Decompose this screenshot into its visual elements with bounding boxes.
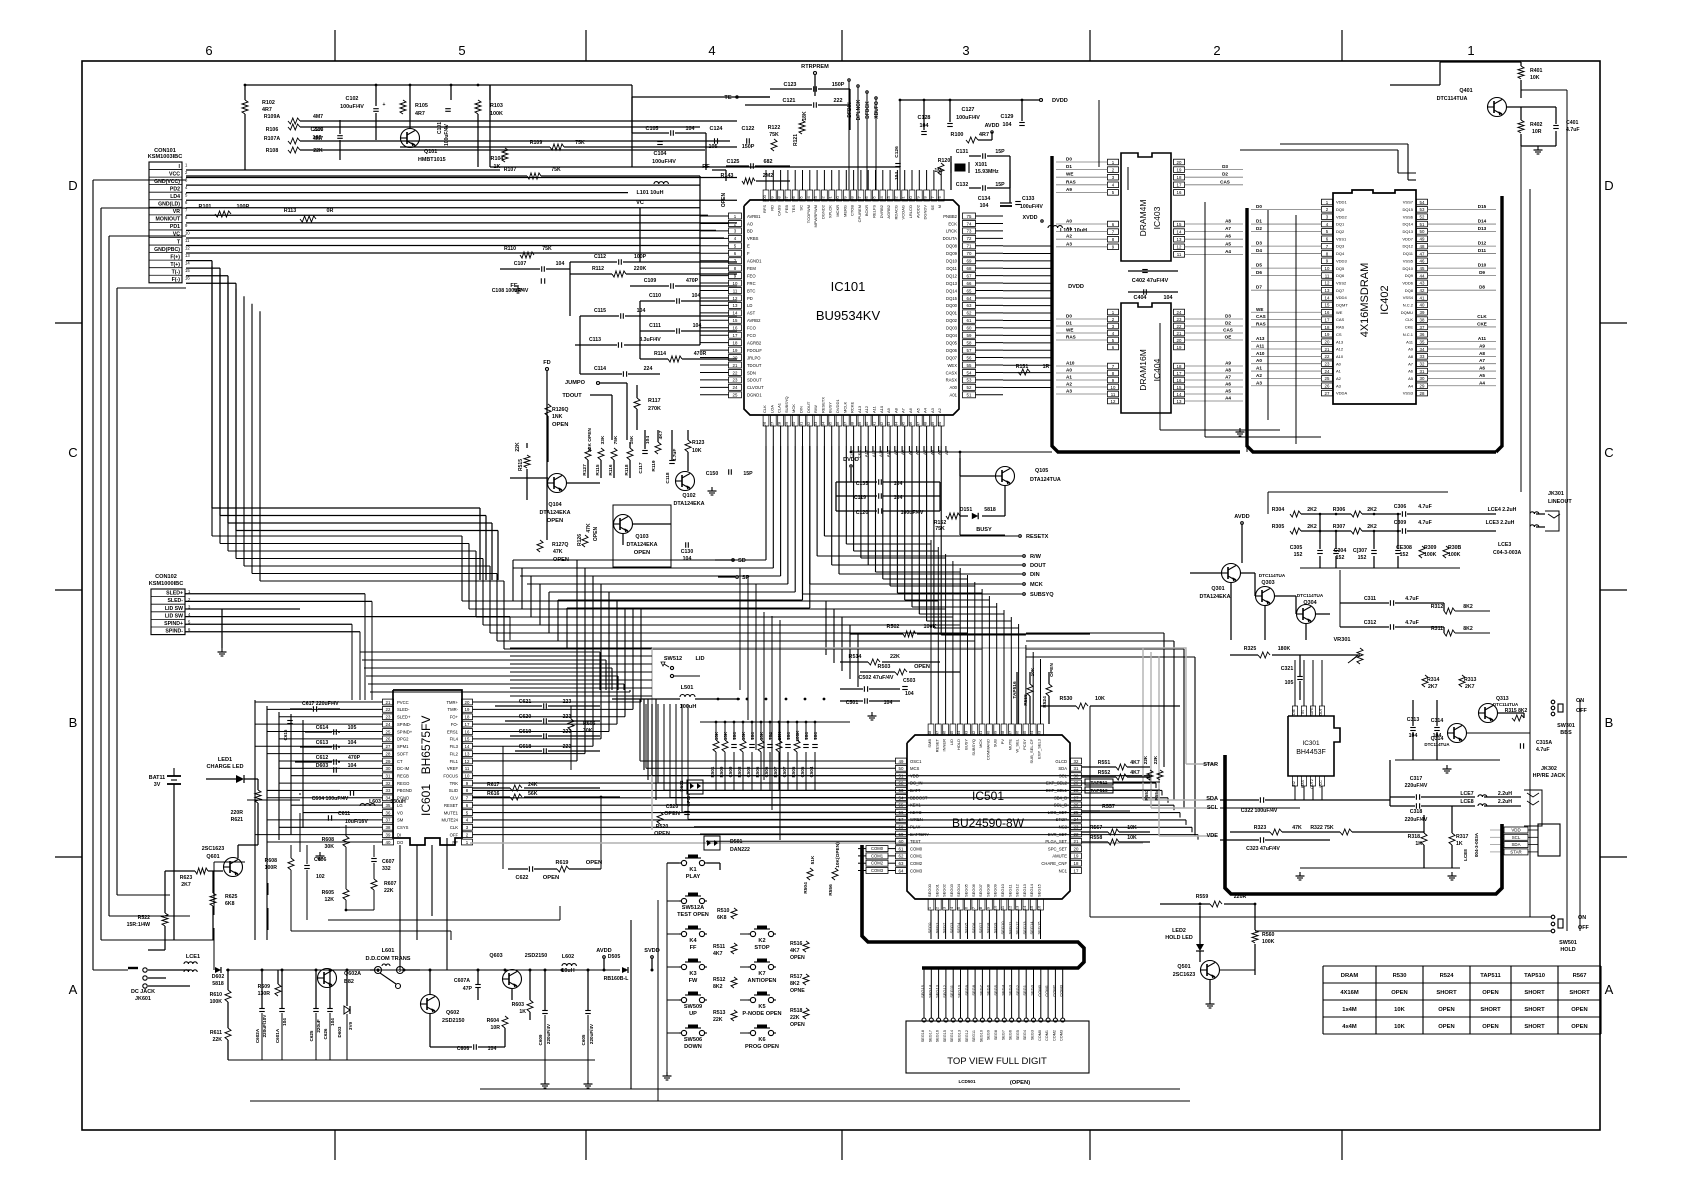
ground C150 — [711, 487, 713, 491]
svg-text:VR301: VR301 — [1333, 637, 1350, 643]
svg-text:SLID: SLID — [449, 788, 458, 793]
resistor R608B 30K — [343, 836, 349, 847]
op-amp U3 IC501 BU24590-8W body — [907, 735, 1070, 899]
svg-text:OPEN: OPEN — [790, 1022, 805, 1028]
svg-text:CLVOUT: CLVOUT — [747, 385, 764, 390]
svg-text:D11: D11 — [1478, 248, 1487, 253]
svg-text:2K7: 2K7 — [181, 882, 191, 888]
svg-text:57: 57 — [967, 348, 972, 353]
svg-text:D0: D0 — [1066, 314, 1072, 319]
svg-text:A13: A13 — [1256, 336, 1265, 341]
op-amp U1 IC101 BU9534KV body — [744, 200, 959, 415]
wire bottom rails — [250, 1100, 658, 1102]
svg-text:D2: D2 — [1222, 172, 1228, 177]
resistor R315 8K2 — [1512, 715, 1524, 721]
svg-text:FF: FF — [690, 945, 697, 951]
svg-text:46: 46 — [1420, 259, 1425, 264]
svg-text:SUB: SUB — [993, 739, 998, 748]
svg-text:COM1: COM1 — [910, 854, 923, 859]
svg-text:4.7uF: 4.7uF — [1405, 620, 1419, 626]
svg-text:2: 2 — [1213, 43, 1220, 58]
svg-text:SC: SC — [799, 205, 804, 211]
capacitor C402 47uF/4V — [1128, 270, 1178, 272]
svg-text:CKE: CKE — [1405, 325, 1414, 330]
zener D603 3V9 — [344, 1006, 350, 1014]
svg-text:R112: R112 — [592, 266, 604, 272]
svg-text:OPEN: OPEN — [1391, 990, 1407, 996]
svg-text:C614: C614 — [316, 725, 329, 731]
svg-text:86: 86 — [864, 196, 869, 201]
svg-text:40: 40 — [864, 421, 869, 426]
svg-text:SDA: SDA — [1058, 766, 1067, 771]
svg-text:R108: R108 — [266, 148, 279, 154]
IC601 left pins 21-40 — [383, 699, 394, 705]
svg-text:SEG7: SEG7 — [1001, 1030, 1005, 1040]
svg-text:A10: A10 — [1066, 361, 1075, 366]
svg-text:52: 52 — [967, 385, 972, 390]
svg-text:IC301: IC301 — [1302, 740, 1319, 747]
wires mid cluster — [526, 443, 528, 448]
wires q301 group — [1190, 572, 1221, 574]
svg-text:IC101: IC101 — [831, 279, 866, 294]
svg-text:33: 33 — [813, 421, 818, 426]
svg-text:SEG2: SEG2 — [942, 922, 947, 933]
svg-text:D10: D10 — [1478, 263, 1487, 268]
svg-text:DTC114TUA: DTC114TUA — [1493, 702, 1519, 707]
svg-text:17: 17 — [1074, 868, 1079, 873]
svg-text:77: 77 — [930, 196, 935, 201]
svg-text:Q602: Q602 — [446, 1010, 459, 1016]
svg-text:34: 34 — [820, 421, 825, 426]
svg-text:C625: C625 — [309, 1030, 314, 1041]
svg-text:223: 223 — [563, 744, 572, 750]
svg-text:OPEN: OPEN — [1438, 1007, 1454, 1013]
svg-text:SPIND-: SPIND- — [397, 722, 412, 727]
svg-text:13: 13 — [733, 303, 738, 308]
wires seg bundle to LCD — [923, 968, 925, 1018]
svg-text:C318: C318 — [1410, 809, 1423, 815]
svg-text:DC JACK: DC JACK — [131, 989, 155, 995]
svg-text:15: 15 — [1177, 222, 1182, 227]
svg-text:A1: A1 — [1336, 369, 1342, 374]
svg-text:LED1: LED1 — [218, 757, 232, 763]
svg-text:RCKE: RCKE — [850, 402, 855, 413]
svg-text:NC1: NC1 — [1059, 868, 1068, 873]
svg-text:R123: R123 — [692, 440, 705, 446]
svg-text:104: 104 — [348, 763, 357, 769]
terminal SUBSYQ — [1023, 593, 1026, 596]
svg-text:HMBT1015: HMBT1015 — [418, 157, 446, 163]
svg-text:LCE8: LCE8 — [1463, 849, 1468, 861]
wire bundle CON102 to right — [364, 594, 366, 700]
svg-text:LID SW: LID SW — [165, 613, 183, 619]
svg-text:DQ1: DQ1 — [1336, 222, 1345, 227]
svg-text:15P: 15P — [995, 182, 1005, 188]
svg-text:22: 22 — [1074, 832, 1079, 837]
svg-text:2.2uH: 2.2uH — [1498, 799, 1512, 805]
resistor R553 R554 22K — [1147, 770, 1153, 780]
svg-text:VREF: VREF — [447, 766, 459, 771]
svg-text:49: 49 — [930, 421, 935, 426]
svg-text:A3: A3 — [1066, 389, 1072, 394]
svg-text:2.2uH: 2.2uH — [1498, 791, 1512, 797]
resistor R623 2K7 — [195, 868, 208, 874]
svg-text:R524: R524 — [1440, 973, 1455, 979]
svg-text:A0: A0 — [1066, 219, 1072, 224]
grid tick marks — [334, 30, 336, 61]
svg-text:D2: D2 — [1256, 226, 1262, 231]
wire BUSY vertical — [959, 452, 961, 535]
svg-text:VDD4: VDD4 — [1336, 295, 1347, 300]
svg-text:SW501: SW501 — [1559, 940, 1577, 946]
op-amp U2 IC601 BH6575FV body — [393, 690, 462, 845]
capacitor C606 102 — [304, 865, 310, 867]
svg-text:A3: A3 — [1066, 241, 1072, 246]
svg-text:R121: R121 — [793, 134, 799, 146]
wire IC101 bottom bundle down — [765, 445, 767, 447]
svg-text:31: 31 — [1420, 369, 1425, 374]
svg-text:R126Q: R126Q — [552, 407, 568, 413]
svg-text:SEG11: SEG11 — [1007, 921, 1012, 934]
svg-text:R516: R516 — [790, 941, 803, 947]
svg-text:5818: 5818 — [984, 507, 996, 513]
wires IC601 right fan — [473, 701, 642, 703]
svg-text:A11: A11 — [1406, 339, 1414, 344]
svg-text:SPIND+: SPIND+ — [164, 621, 183, 627]
svg-text:A4: A4 — [923, 407, 928, 413]
svg-text:A3: A3 — [930, 407, 935, 413]
svg-text:14: 14 — [465, 744, 470, 749]
svg-text:Q102: Q102 — [682, 493, 695, 499]
svg-text:2M2: 2M2 — [763, 173, 774, 179]
svg-text:R609: R609 — [258, 984, 271, 990]
svg-text:RF: RF — [452, 840, 458, 845]
svg-text:SEG15: SEG15 — [1037, 883, 1042, 897]
resistor R317 1K — [1449, 833, 1455, 845]
svg-text:DOWN: DOWN — [684, 1044, 702, 1050]
svg-text:R309: R309 — [1424, 545, 1437, 551]
svg-text:65: 65 — [967, 288, 972, 293]
svg-text:Q603: Q603 — [489, 953, 502, 959]
svg-text:DQ14: DQ14 — [1403, 222, 1414, 227]
svg-text:30: 30 — [1074, 773, 1079, 778]
svg-text:32: 32 — [1420, 362, 1425, 367]
svg-text:OPEN: OPEN — [654, 831, 670, 837]
svg-text:TAP510: TAP510 — [1524, 973, 1545, 979]
wire corners above IC402 — [1397, 150, 1399, 173]
svg-text:1K: 1K — [1415, 841, 1422, 847]
svg-text:A5: A5 — [1225, 389, 1231, 394]
switch K5 P-NODE OPEN — [754, 994, 770, 996]
svg-text:LD: LD — [747, 303, 752, 308]
svg-text:R325: R325 — [1244, 646, 1257, 652]
svg-text:64: 64 — [899, 868, 904, 873]
IC402 right pins 54-28 — [1417, 199, 1428, 205]
svg-text:3V9: 3V9 — [348, 1021, 353, 1030]
svg-text:22K: 22K — [384, 888, 394, 894]
svg-text:60: 60 — [899, 839, 904, 844]
svg-text:50: 50 — [1420, 229, 1425, 234]
wires R530 region — [1029, 672, 1031, 684]
svg-text:SEG08: SEG08 — [985, 883, 990, 897]
svg-text:SUBSYQ: SUBSYQ — [1030, 592, 1054, 598]
svg-text:R512: R512 — [713, 977, 726, 983]
svg-text:100uF/4V: 100uF/4V — [652, 159, 676, 165]
svg-text:DQ3: DQ3 — [1336, 244, 1345, 249]
svg-text:LCE1: LCE1 — [186, 954, 200, 960]
svg-text:LED2: LED2 — [1172, 928, 1186, 934]
svg-text:CAS: CAS — [1336, 317, 1345, 322]
svg-text:35: 35 — [1022, 730, 1027, 735]
svg-text:R127: R127 — [582, 464, 588, 476]
svg-text:100: 100 — [762, 194, 767, 201]
svg-text:SDOUT: SDOUT — [747, 378, 762, 383]
svg-text:85: 85 — [872, 196, 877, 201]
svg-text:42: 42 — [971, 730, 976, 735]
svg-text:270K: 270K — [648, 406, 661, 412]
svg-text:0R: 0R — [327, 208, 334, 214]
svg-text:220R: 220R — [1234, 894, 1247, 900]
svg-text:OPEN: OPEN — [552, 422, 568, 428]
svg-text:SEG12: SEG12 — [942, 984, 947, 998]
svg-text:D7: D7 — [1256, 285, 1262, 290]
svg-text:LID SW: LID SW — [165, 606, 183, 612]
svg-text:R110: R110 — [504, 246, 516, 252]
svg-text:OPEN: OPEN — [664, 811, 680, 817]
capacitor C618 223 — [543, 748, 545, 754]
svg-text:R623: R623 — [180, 875, 193, 881]
svg-text:14: 14 — [733, 311, 738, 316]
svg-text:RESETX: RESETX — [820, 397, 825, 413]
svg-text:GND(LD): GND(LD) — [158, 202, 180, 208]
svg-text:CS: CS — [1336, 332, 1342, 337]
svg-text:83: 83 — [886, 196, 891, 201]
svg-text:SPC_SET: SPC_SET — [1048, 846, 1068, 851]
svg-text:SPM1: SPM1 — [397, 744, 409, 749]
svg-text:C111: C111 — [649, 323, 661, 329]
svg-text:CAS: CAS — [1256, 314, 1266, 319]
svg-text:R608: R608 — [322, 837, 335, 843]
svg-text:58: 58 — [967, 340, 972, 345]
svg-text:R511: R511 — [713, 944, 725, 950]
svg-text:Q105: Q105 — [1035, 468, 1048, 474]
svg-text:GLCD: GLCD — [1055, 759, 1067, 764]
svg-text:A9: A9 — [1408, 347, 1414, 352]
svg-text:TAP511: TAP511 — [1091, 780, 1108, 786]
svg-text:VDD1: VDD1 — [1336, 200, 1347, 205]
svg-text:DQ06: DQ06 — [946, 348, 958, 353]
capacitor C625 220uF — [313, 1008, 319, 1010]
wire left tall rails — [92, 180, 94, 970]
diode D502 OPEN — [687, 780, 703, 794]
svg-text:10K: 10K — [1127, 835, 1137, 841]
svg-text:105: 105 — [709, 144, 718, 150]
capacitor C119 104 — [878, 493, 880, 499]
wire big diagonal bundle — [211, 266, 213, 536]
svg-text:28: 28 — [386, 751, 391, 756]
resistor R619 OPEN — [557, 866, 569, 872]
capacitor C609 220uF/4V — [542, 1010, 548, 1012]
capacitor C315A 4.7uF — [1519, 743, 1521, 749]
svg-text:SVDD: SVDD — [644, 948, 660, 954]
svg-text:BATT: BATT — [910, 788, 921, 793]
capacitor C605 220uF/4V — [585, 1010, 591, 1012]
svg-text:75K: 75K — [551, 167, 561, 173]
svg-text:F(-): F(-) — [172, 277, 181, 283]
svg-text:Q104: Q104 — [548, 502, 561, 508]
svg-text:57: 57 — [899, 817, 904, 822]
svg-text:19: 19 — [1325, 332, 1330, 337]
svg-text:51: 51 — [899, 773, 904, 778]
svg-text:SM: SM — [397, 818, 404, 823]
svg-text:93: 93 — [813, 196, 818, 201]
svg-text:470P: 470P — [348, 755, 361, 761]
svg-text:97: 97 — [784, 196, 789, 201]
resistor R610 100K — [225, 990, 231, 1002]
svg-text:F: F — [747, 251, 750, 256]
svg-text:BCKR: BCKR — [864, 205, 869, 216]
resistor R522 15R/1W — [162, 913, 168, 926]
svg-text:DQ02: DQ02 — [946, 318, 958, 323]
svg-text:4.7uF: 4.7uF — [1536, 747, 1550, 753]
svg-text:BTC: BTC — [747, 288, 755, 293]
svg-text:28: 28 — [777, 421, 782, 426]
svg-text:OPEN: OPEN — [1438, 1024, 1454, 1030]
capacitor C120 100uF/4V — [877, 508, 879, 514]
svg-text:10R: 10R — [1532, 129, 1542, 135]
svg-text:R151: R151 — [1016, 364, 1029, 370]
resistor R625 6K8 — [210, 893, 216, 906]
svg-text:A11: A11 — [1256, 344, 1265, 349]
svg-text:OPEN: OPEN — [543, 875, 559, 881]
svg-text:C607: C607 — [382, 859, 395, 865]
svg-text:MUTE24: MUTE24 — [441, 818, 458, 823]
svg-text:R116: R116 — [608, 464, 614, 476]
svg-text:12: 12 — [1325, 281, 1330, 286]
svg-text:56: 56 — [899, 810, 904, 815]
svg-text:53: 53 — [1420, 207, 1425, 212]
terminal R/W — [1023, 555, 1026, 558]
svg-text:A5: A5 — [1479, 373, 1485, 378]
svg-text:3V: 3V — [154, 782, 161, 788]
svg-text:PLGA_SET: PLGA_SET — [1045, 839, 1067, 844]
svg-text:C620: C620 — [519, 714, 532, 720]
svg-text:19: 19 — [465, 707, 470, 712]
svg-text:61: 61 — [967, 318, 972, 323]
resistor R606 30K — [568, 719, 574, 730]
resistor R520 OPEN — [657, 812, 663, 824]
svg-text:R318: R318 — [1408, 834, 1421, 840]
svg-text:38: 38 — [1000, 730, 1005, 735]
svg-text:41: 41 — [1420, 295, 1425, 300]
svg-text:4K7: 4K7 — [1130, 770, 1140, 776]
svg-text:C604 100uF/4V: C604 100uF/4V — [312, 796, 349, 802]
wire group A verticals to IC601 fan — [576, 560, 578, 761]
svg-text:CASX: CASX — [946, 370, 958, 375]
svg-text:36: 36 — [835, 421, 840, 426]
svg-text:26: 26 — [1325, 384, 1330, 389]
svg-text:AVRB1: AVRB1 — [747, 214, 761, 219]
svg-text:29: 29 — [784, 421, 789, 426]
svg-text:48: 48 — [927, 730, 932, 735]
svg-text:VCOAG: VCOAG — [901, 205, 906, 219]
svg-text:38: 38 — [386, 825, 391, 830]
svg-text:SEG10: SEG10 — [1000, 921, 1005, 935]
svg-text:SEG17: SEG17 — [928, 1030, 932, 1042]
svg-text:VR: VR — [173, 209, 180, 215]
svg-text:152: 152 — [1358, 555, 1367, 561]
svg-text:TOP VIEW FULL DIGIT: TOP VIEW FULL DIGIT — [947, 1056, 1047, 1067]
svg-text:D505: D505 — [608, 954, 621, 960]
svg-text:R567: R567 — [1573, 973, 1587, 979]
svg-text:SEG13: SEG13 — [958, 1030, 962, 1042]
left tall rails — [93, 969, 128, 971]
svg-text:VO: VO — [397, 810, 404, 815]
svg-text:A6: A6 — [1479, 366, 1485, 371]
svg-text:60: 60 — [967, 326, 972, 331]
svg-text:2SC1623: 2SC1623 — [202, 846, 224, 852]
svg-text:FEB: FEB — [784, 205, 789, 213]
svg-text:13: 13 — [1177, 237, 1182, 242]
svg-text:KEY1: KEY1 — [910, 803, 921, 808]
svg-text:10: 10 — [1111, 385, 1116, 390]
svg-text:FOCUS: FOCUS — [443, 774, 458, 779]
wires keypad — [667, 862, 679, 864]
svg-text:SEG8: SEG8 — [994, 1030, 998, 1040]
svg-text:LID: LID — [695, 656, 704, 662]
svg-text:OPEN: OPEN — [1571, 1007, 1587, 1013]
svg-text:C602A: C602A — [255, 1028, 260, 1043]
svg-text:152: 152 — [1336, 555, 1345, 561]
resistor R152 75K — [946, 513, 960, 519]
svg-text:VDD: VDD — [1511, 828, 1520, 833]
svg-text:104: 104 — [905, 691, 914, 697]
svg-text:VSS3: VSS3 — [1403, 391, 1414, 396]
svg-text:40: 40 — [1420, 303, 1425, 308]
svg-text:SEG07: SEG07 — [978, 883, 983, 897]
svg-text:43: 43 — [1420, 281, 1425, 286]
wires hp section — [1220, 799, 1259, 801]
svg-text:10K: 10K — [692, 448, 702, 454]
svg-text:A2: A2 — [1336, 376, 1342, 381]
svg-text:92: 92 — [820, 196, 825, 201]
svg-text:A11: A11 — [1478, 336, 1487, 341]
svg-text:49: 49 — [899, 759, 904, 764]
svg-text:C134: C134 — [978, 196, 991, 202]
svg-text:35: 35 — [1420, 339, 1425, 344]
svg-text:R518: R518 — [790, 1008, 803, 1014]
svg-text:22K: 22K — [890, 654, 900, 660]
wire terminal feeds — [823, 446, 825, 536]
svg-text:AMUTE: AMUTE — [1052, 854, 1067, 859]
svg-text:CLK: CLK — [762, 405, 767, 413]
wire verticals left of IC101 — [569, 262, 571, 316]
svg-text:33: 33 — [386, 788, 391, 793]
svg-text:R503: R503 — [878, 664, 891, 670]
svg-text:C404: C404 — [1134, 295, 1147, 301]
capacitor C616 104 — [287, 720, 293, 722]
svg-text:RAS: RAS — [1256, 321, 1266, 326]
svg-text:R104: R104 — [491, 156, 504, 162]
svg-text:A9: A9 — [1225, 361, 1231, 366]
crystal X101 15.93MHz — [955, 164, 965, 171]
svg-text:FO-: FO- — [451, 722, 459, 727]
svg-text:2K2: 2K2 — [1367, 524, 1377, 530]
svg-text:R605: R605 — [322, 890, 335, 896]
svg-text:4.7uF: 4.7uF — [1566, 127, 1580, 133]
svg-text:45: 45 — [949, 730, 954, 735]
svg-text:R107A: R107A — [264, 136, 280, 142]
